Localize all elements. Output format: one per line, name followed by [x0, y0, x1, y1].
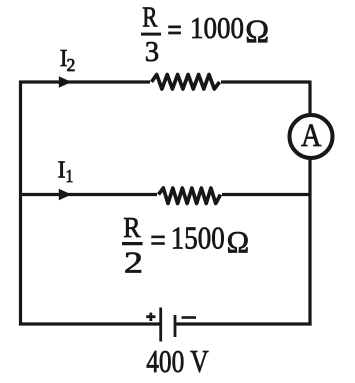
svg-text:2: 2 — [124, 246, 143, 280]
svg-text:I: I — [58, 157, 66, 183]
svg-text:1500: 1500 — [171, 221, 225, 256]
svg-text:R: R — [123, 212, 141, 244]
svg-text:Ω: Ω — [227, 224, 250, 259]
svg-text:1: 1 — [66, 166, 74, 186]
svg-text:3: 3 — [145, 36, 159, 68]
svg-text:1000: 1000 — [190, 11, 244, 45]
svg-text:R: R — [142, 3, 157, 34]
svg-text:Ω: Ω — [245, 14, 269, 50]
svg-text:2: 2 — [67, 55, 76, 75]
svg-text:400 V: 400 V — [146, 344, 209, 379]
svg-text:A: A — [301, 118, 322, 154]
